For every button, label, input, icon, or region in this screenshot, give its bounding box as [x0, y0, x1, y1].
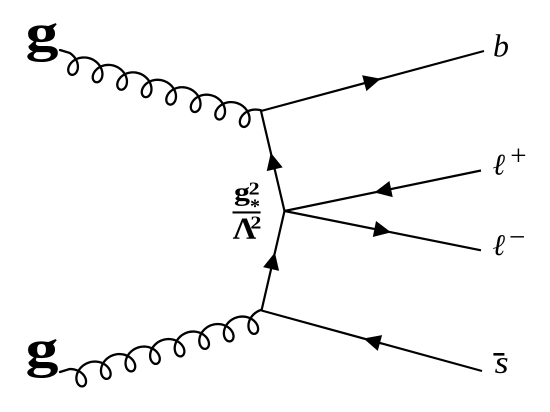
wire internal quark line top vertex to middle vertex — [261, 111, 285, 211]
svg-text:b: b — [493, 28, 509, 64]
svg-text:+: + — [510, 140, 526, 172]
wire b-quark line from top vertex — [261, 51, 484, 111]
wire lepton-minus line from middle vertex — [285, 211, 482, 250]
arrow on internal line (upward to middle vertex) — [263, 252, 279, 270]
gluon g (bottom incoming) — [60, 310, 261, 387]
wire anti-strange line from bottom vertex — [262, 311, 483, 372]
arrow on lepton-minus line (outgoing) — [373, 221, 391, 237]
arrow on internal line (upward to top vertex) — [267, 153, 283, 171]
gluon g (top incoming) — [60, 50, 261, 127]
arrow on lepton-plus line (toward vertex) — [374, 181, 392, 197]
svg-text:ℓ: ℓ — [493, 148, 506, 181]
svg-text:g: g — [26, 320, 59, 378]
arrow on anti-strange line (toward vertex) — [364, 335, 383, 351]
wire lepton-plus line from middle vertex — [285, 171, 482, 212]
svg-text:s: s — [495, 345, 509, 380]
arrow on b line — [362, 75, 381, 91]
svg-text:ℓ: ℓ — [493, 229, 506, 262]
svg-text:g: g — [234, 177, 250, 206]
svg-text:−: − — [509, 222, 525, 254]
svg-text:2: 2 — [250, 212, 261, 232]
wire internal quark line bottom vertex to middle vertex — [262, 211, 285, 311]
svg-text:g: g — [26, 5, 59, 63]
